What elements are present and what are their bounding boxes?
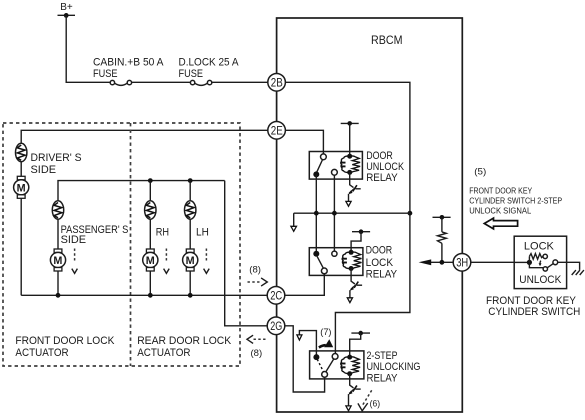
svg-text:(5): (5) xyxy=(474,167,486,178)
resistor R1 pull-up xyxy=(433,215,451,262)
switch SW1 front door key cylinder box xyxy=(514,236,566,288)
wire 2E to unlock relay contact xyxy=(285,130,323,154)
svg-text:2-STEP: 2-STEP xyxy=(367,350,398,362)
battery B+ terminal xyxy=(58,2,76,18)
svg-text:UNLOCK: UNLOCK xyxy=(519,274,562,286)
dashed divider front/rear xyxy=(130,123,132,366)
wire driver motor to bottom bus xyxy=(20,198,22,295)
label front door key cylinder switch 2-step unlock signal xyxy=(469,186,562,215)
junction RH top xyxy=(148,178,153,183)
svg-text:2C: 2C xyxy=(270,289,282,303)
wire 2E left to driver door branch xyxy=(21,130,268,143)
switch lock relay xyxy=(313,251,337,274)
svg-text:3H: 3H xyxy=(456,256,468,270)
relay U1 DOOR UNLOCK RELAY box xyxy=(309,152,362,180)
fuse CABIN.+B 50 A xyxy=(110,80,131,85)
power T-bar 2-step coil xyxy=(351,331,370,336)
power T-bar unlock relay coil xyxy=(341,121,359,126)
svg-text:DOOR: DOOR xyxy=(366,245,393,257)
wire T-bar jog to lock coil xyxy=(351,232,361,253)
wire key switch to ground xyxy=(558,262,580,270)
label FRONT DOOR LOCK ACTUATOR xyxy=(15,335,115,359)
label REAR DOOR LOCK ACTUATOR xyxy=(137,335,232,359)
arrow LH actuator direction xyxy=(204,249,210,274)
wire B+ down and right to fuse 1 xyxy=(66,15,110,82)
fuse D.LOCK 25 A xyxy=(190,80,211,85)
wire top bus rear branch xyxy=(58,181,225,201)
svg-text:M: M xyxy=(53,255,62,267)
wire 2B feed rail xyxy=(285,82,410,353)
coil LH rear actuator xyxy=(185,181,196,220)
wire passenger motor to bus xyxy=(57,271,59,295)
svg-text:LOCK: LOCK xyxy=(524,240,555,252)
wire lock relay output to 2C xyxy=(285,274,325,296)
svg-text:DRIVER' S: DRIVER' S xyxy=(31,152,82,164)
coil driver's side door lock actuator xyxy=(16,143,27,161)
ground chassis hatch xyxy=(572,270,584,275)
svg-text:FRONT DOOR LOCK: FRONT DOOR LOCK xyxy=(15,335,115,347)
switch key cylinder internals xyxy=(514,254,557,271)
connector 2G xyxy=(267,317,285,335)
ground arrow mid rail xyxy=(291,213,297,231)
wire RH motor to bus xyxy=(149,271,151,295)
svg-text:M: M xyxy=(186,255,195,267)
wire 3H to key cylinder switch xyxy=(471,261,514,263)
svg-text:RELAY: RELAY xyxy=(366,269,398,281)
relay U2 DOOR LOCK RELAY box xyxy=(309,248,363,276)
label 2-STEP UNLOCKING RELAY xyxy=(367,350,421,385)
label FRONT DOOR KEY CYLINDER SWITCH xyxy=(486,295,580,318)
transistor unlock relay driver xyxy=(346,172,361,206)
power T-bar lock relay coil xyxy=(352,229,370,234)
svg-text:LOCK: LOCK xyxy=(366,257,394,269)
label CABIN.+B 50 A FUSE xyxy=(93,56,164,80)
arrow RH actuator direction xyxy=(164,249,170,274)
junction LH top xyxy=(188,178,193,183)
svg-text:M: M xyxy=(146,255,155,267)
svg-text:FRONT DOOR KEY: FRONT DOOR KEY xyxy=(469,186,533,195)
svg-text:B+: B+ xyxy=(60,2,73,13)
wire 2G loop to 2-step contact xyxy=(285,326,325,392)
RBCM box xyxy=(277,18,463,412)
switch 2-step relay xyxy=(313,354,338,378)
arrow (7) bold xyxy=(319,339,333,347)
svg-text:UNLOCK SIGNAL: UNLOCK SIGNAL xyxy=(469,206,532,215)
wire unlock common down to lock common xyxy=(315,174,317,253)
wire passenger coil to motor xyxy=(57,219,59,249)
svg-text:(7): (7) xyxy=(320,327,331,338)
svg-text:2B: 2B xyxy=(271,76,283,90)
wire T-bar to unlock coil xyxy=(349,123,351,156)
svg-text:2G: 2G xyxy=(270,319,282,333)
arrow passenger actuator direction xyxy=(72,249,78,274)
svg-text:M: M xyxy=(17,182,26,194)
label DOOR UNLOCK RELAY xyxy=(366,150,404,184)
relay U3 2-STEP UNLOCKING RELAY box xyxy=(310,351,364,379)
transistor lock relay driver xyxy=(347,269,362,303)
svg-text:CABIN.+B 50 A: CABIN.+B 50 A xyxy=(93,56,164,68)
junction RH bottom xyxy=(148,293,153,298)
svg-text:ACTUATOR: ACTUATOR xyxy=(15,347,68,359)
transistor 2-step relay driver xyxy=(346,374,361,411)
junction mid rail / common line xyxy=(314,211,319,216)
arrow (5) hollow left xyxy=(484,218,517,229)
svg-text:(8): (8) xyxy=(251,348,263,359)
wire bottom bus to 2C xyxy=(21,294,267,296)
junction 2B rail / mid rail xyxy=(408,211,413,216)
wire driver coil to motor xyxy=(20,162,22,177)
svg-text:FUSE: FUSE xyxy=(93,68,118,80)
junction passenger bottom xyxy=(56,293,61,298)
label PASSENGER' S SIDE xyxy=(61,224,129,246)
mid rail wire xyxy=(294,212,410,214)
connector 2E xyxy=(268,122,286,140)
svg-text:REAR DOOR LOCK: REAR DOOR LOCK xyxy=(137,335,232,347)
svg-text:UNLOCKING: UNLOCKING xyxy=(367,361,421,373)
motor RH xyxy=(143,249,158,271)
ground stub 2-step common xyxy=(297,331,317,358)
motor LH xyxy=(183,249,198,271)
svg-text:2E: 2E xyxy=(271,124,283,138)
label D.LOCK 25 A FUSE xyxy=(179,56,240,80)
svg-text:FUSE: FUSE xyxy=(179,68,204,80)
svg-text:LH: LH xyxy=(196,227,209,239)
arrow (8) dashed right xyxy=(248,278,268,286)
svg-text:CYLINDER SWITCH: CYLINDER SWITCH xyxy=(488,306,580,318)
motor passenger's side xyxy=(50,249,65,271)
front/rear door lock actuator dashed box xyxy=(3,123,240,366)
wire unlock NO contact down to lock contact xyxy=(333,175,335,251)
junction LH bottom xyxy=(188,293,193,298)
wire 3H internal with arrow xyxy=(419,259,454,265)
label DRIVER' S SIDE xyxy=(31,152,82,176)
junction mid rail / contact line xyxy=(332,211,337,216)
wire fuse 1 to fuse 2 xyxy=(132,81,191,83)
svg-text:FRONT DOOR KEY: FRONT DOOR KEY xyxy=(486,295,577,307)
coil lock relay xyxy=(342,250,361,271)
wire T-bar jog to 2-step coil xyxy=(350,333,361,357)
svg-text:CYLINDER SWITCH 2-STEP: CYLINDER SWITCH 2-STEP xyxy=(469,196,562,205)
wire fuse 2 to connector 2B xyxy=(212,81,268,83)
wire right column to 2G xyxy=(225,181,268,326)
wire RH coil to motor xyxy=(149,219,151,249)
label DOOR LOCK RELAY xyxy=(366,245,398,281)
svg-text:ACTUATOR: ACTUATOR xyxy=(137,347,190,359)
wire LH coil to motor xyxy=(189,219,191,249)
arrow (8) dashed left xyxy=(247,335,266,343)
switch unlock relay xyxy=(313,154,337,177)
arrow (6) dashed xyxy=(358,390,372,411)
svg-text:RELAY: RELAY xyxy=(367,373,399,385)
svg-text:SIDE: SIDE xyxy=(31,164,57,176)
svg-text:RBCM: RBCM xyxy=(371,35,403,47)
coil unlock relay xyxy=(341,154,360,175)
svg-text:(8): (8) xyxy=(249,264,261,275)
coil 2-step relay xyxy=(341,355,360,377)
svg-text:D.LOCK 25 A: D.LOCK 25 A xyxy=(179,56,240,68)
coil RH rear actuator xyxy=(145,181,156,220)
svg-text:RELAY: RELAY xyxy=(366,172,398,184)
svg-text:(6): (6) xyxy=(370,398,381,409)
connector 2C xyxy=(267,287,285,305)
svg-text:SIDE: SIDE xyxy=(61,234,87,246)
svg-text:RH: RH xyxy=(156,227,169,239)
motor driver's side xyxy=(14,176,29,198)
connector 2B xyxy=(268,74,286,92)
connector 3H xyxy=(453,253,471,271)
wire LH motor to bus xyxy=(189,271,191,295)
coil passenger's side actuator xyxy=(52,201,63,219)
